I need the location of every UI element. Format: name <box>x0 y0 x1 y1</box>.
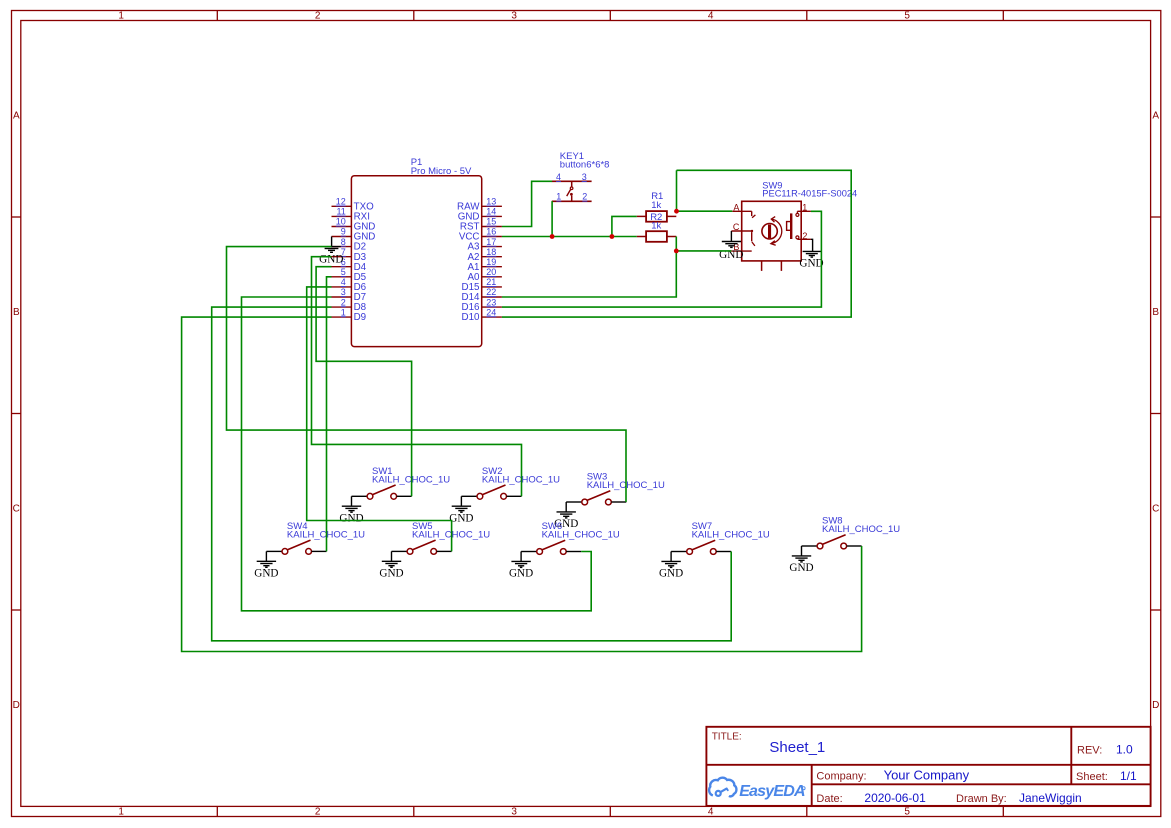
svg-text:Sheet_1: Sheet_1 <box>769 739 825 756</box>
svg-text:GND: GND <box>379 567 403 579</box>
svg-text:A: A <box>733 202 739 212</box>
svg-text:button6*6*8: button6*6*8 <box>560 159 610 170</box>
svg-text:GND: GND <box>339 512 363 524</box>
wire D8 net to SW7 <box>212 307 732 641</box>
svg-text:12: 12 <box>336 197 346 207</box>
wire VCC bus <box>502 236 637 238</box>
wire VCC to R2 left <box>612 216 637 236</box>
ground symbol at SW9 pin C <box>719 231 743 261</box>
svg-text:A: A <box>13 110 20 121</box>
resistor R1 1k <box>637 231 677 242</box>
svg-text:EasyEDA: EasyEDA <box>739 783 805 800</box>
wire RST to KEY1 pin4 <box>502 181 552 226</box>
svg-text:23: 23 <box>486 297 496 307</box>
svg-text:B: B <box>1152 307 1159 318</box>
svg-text:4: 4 <box>341 277 346 287</box>
wire D7 net to SW6 <box>242 297 592 611</box>
svg-text:2020-06-01: 2020-06-01 <box>864 791 926 805</box>
ground symbol at SW3 <box>554 502 578 530</box>
wire D4 net to SW1 <box>316 267 412 497</box>
svg-text:1: 1 <box>118 807 124 818</box>
svg-text:Pro Micro - 5V: Pro Micro - 5V <box>411 166 472 177</box>
svg-text:13: 13 <box>486 197 496 207</box>
svg-text:2: 2 <box>802 231 807 241</box>
wire D3 net to SW2 <box>312 257 522 497</box>
ground symbol at P1 pins 8-9 <box>319 237 343 266</box>
ground symbol at SW4 <box>254 551 278 579</box>
svg-text:A: A <box>1152 110 1159 121</box>
wire node B to SW9 pin B <box>676 250 731 252</box>
junction VCC / R2 <box>610 234 615 239</box>
svg-text:3: 3 <box>341 287 346 297</box>
key switch SW1 KAILH_CHOC_1U <box>352 466 451 499</box>
wire R1 right to D14 <box>502 237 676 298</box>
ground symbol at SW1 <box>339 496 363 524</box>
svg-text:TITLE:: TITLE: <box>712 731 742 742</box>
svg-text:1k: 1k <box>651 200 661 211</box>
svg-text:11: 11 <box>336 207 345 217</box>
svg-text:KAILH_CHOC_1U: KAILH_CHOC_1U <box>692 530 770 541</box>
wire KEY1 pin1 to VCC <box>551 201 553 236</box>
svg-text:4: 4 <box>708 807 714 818</box>
ground symbol at SW6 <box>509 552 533 580</box>
svg-text:1: 1 <box>802 202 807 212</box>
svg-text:1.0: 1.0 <box>1116 743 1133 757</box>
rotary encoder SW9 PEC11R-4015F-S0024 <box>731 180 857 271</box>
svg-text:C: C <box>13 503 20 514</box>
svg-text:2: 2 <box>315 807 321 818</box>
wire D16 to SW9 pin 1 <box>502 211 822 307</box>
svg-text:1: 1 <box>118 10 124 21</box>
wire D10 loop <box>502 170 851 317</box>
svg-text:4: 4 <box>708 10 714 21</box>
svg-text:5: 5 <box>904 807 910 818</box>
wire D2 net to SW3 <box>227 247 627 502</box>
svg-text:Date:: Date: <box>816 793 842 805</box>
svg-text:Your Company: Your Company <box>884 768 970 783</box>
ground symbol at SW2 <box>449 496 473 524</box>
svg-text:15: 15 <box>486 217 496 227</box>
wire D9 net to SW8 <box>182 317 862 651</box>
svg-text:20: 20 <box>486 267 496 277</box>
resistor R2 1k <box>637 211 677 222</box>
svg-text:KAILH_CHOC_1U: KAILH_CHOC_1U <box>822 524 900 535</box>
svg-text:1: 1 <box>341 307 346 317</box>
svg-text:D: D <box>1152 700 1159 711</box>
svg-text:GND: GND <box>789 562 813 574</box>
key switch SW7 KAILH_CHOC_1U <box>671 521 770 554</box>
svg-text:GND: GND <box>799 257 823 269</box>
wire node A to SW9 pin A <box>677 210 733 212</box>
svg-text:3: 3 <box>511 10 517 21</box>
svg-text:B: B <box>13 307 20 318</box>
junction node A <box>674 209 679 214</box>
svg-text:C: C <box>1152 503 1159 514</box>
svg-text:GND: GND <box>509 568 533 580</box>
svg-text:2: 2 <box>315 10 321 21</box>
EasyEDA logo <box>709 778 805 800</box>
svg-text:GND: GND <box>449 512 473 524</box>
svg-text:19: 19 <box>486 257 496 267</box>
ground symbol at SW8 <box>789 546 813 574</box>
svg-text:5: 5 <box>904 10 910 21</box>
svg-text:Company:: Company: <box>816 771 866 783</box>
wire R2 right riser <box>676 170 678 211</box>
ground symbol at SW9 pin 2 <box>799 239 823 269</box>
svg-text:PEC11R-4015F-S0024: PEC11R-4015F-S0024 <box>762 189 857 199</box>
svg-text:2: 2 <box>582 192 587 202</box>
svg-text:2: 2 <box>341 297 346 307</box>
ground symbol at SW7 <box>659 552 683 580</box>
svg-text:3: 3 <box>511 807 517 818</box>
key switch SW5 KAILH_CHOC_1U <box>392 521 491 554</box>
svg-text:D10: D10 <box>462 312 481 323</box>
key switch SW3 KAILH_CHOC_1U <box>566 472 665 505</box>
svg-text:21: 21 <box>486 277 496 287</box>
svg-text:D: D <box>13 700 20 711</box>
svg-text:KAILH_CHOC_1U: KAILH_CHOC_1U <box>542 530 620 541</box>
svg-text:4: 4 <box>556 172 561 182</box>
svg-text:D9: D9 <box>354 312 367 323</box>
svg-text:3: 3 <box>582 172 587 182</box>
svg-text:GND: GND <box>319 253 343 265</box>
svg-text:5: 5 <box>341 267 346 277</box>
svg-text:Sheet:: Sheet: <box>1076 771 1108 783</box>
wire D6 net to SW5 <box>307 287 452 552</box>
svg-text:22: 22 <box>486 287 496 297</box>
svg-text:18: 18 <box>486 247 496 257</box>
svg-text:16: 16 <box>486 227 496 237</box>
svg-text:24: 24 <box>486 307 496 317</box>
svg-text:Drawn By:: Drawn By: <box>956 793 1007 805</box>
svg-text:17: 17 <box>486 237 496 247</box>
wire D5 net to SW4 <box>327 277 332 552</box>
svg-text:1k: 1k <box>651 221 661 232</box>
svg-text:1/1: 1/1 <box>1120 769 1137 783</box>
svg-text:1: 1 <box>556 192 561 202</box>
title block <box>706 727 1150 806</box>
push button KEY1 button6*6*8 <box>552 151 610 202</box>
svg-text:GND: GND <box>254 567 278 579</box>
svg-text:14: 14 <box>486 207 496 217</box>
labels R1 R2 values <box>650 191 663 232</box>
connector P1 Pro Micro - 5V <box>332 157 502 347</box>
svg-text:REV:: REV: <box>1077 745 1102 757</box>
svg-text:C: C <box>733 222 740 232</box>
key switch SW4 KAILH_CHOC_1U <box>266 521 365 554</box>
svg-text:JaneWiggin: JaneWiggin <box>1019 791 1082 805</box>
junction VCC / KEY1 <box>550 234 555 239</box>
svg-text:8: 8 <box>341 237 346 247</box>
key switch SW6 KAILH_CHOC_1U <box>521 521 620 554</box>
svg-text:10: 10 <box>336 217 346 227</box>
key switch SW8 KAILH_CHOC_1U <box>802 516 901 549</box>
junction node B <box>674 249 679 254</box>
key switch SW2 KAILH_CHOC_1U <box>461 466 560 499</box>
svg-text:9: 9 <box>341 227 346 237</box>
svg-text:GND: GND <box>659 568 683 580</box>
ground symbol at SW5 <box>379 551 403 579</box>
